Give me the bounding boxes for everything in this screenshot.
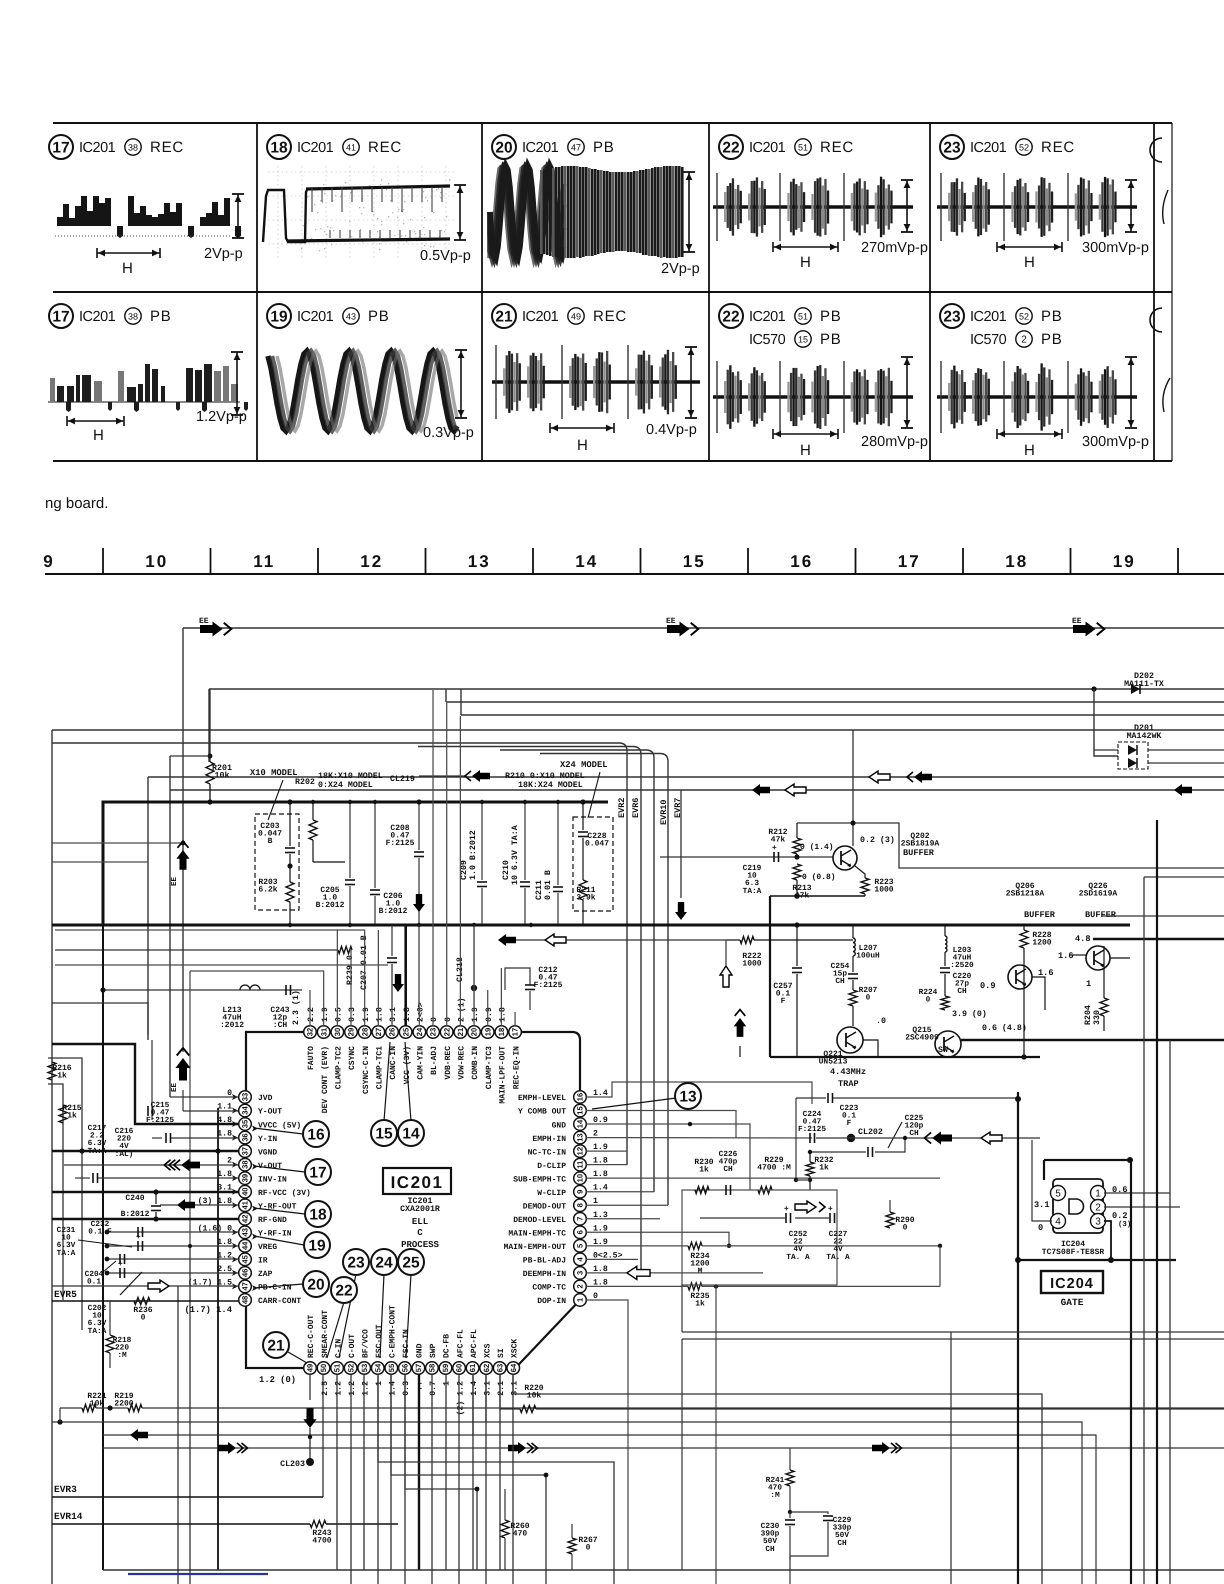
- svg-text:NC-TC-IN: NC-TC-IN: [528, 1148, 567, 1157]
- svg-text:300mVp-p: 300mVp-p: [1082, 240, 1149, 256]
- svg-text:2: 2: [1021, 334, 1027, 345]
- waveform 21 REC (chroma bursts 0.4Vp-p): [492, 380, 700, 383]
- svg-text:TC7S08F-TE8SR: TC7S08F-TE8SR: [1042, 1248, 1105, 1257]
- svg-text:14: 14: [402, 1126, 420, 1143]
- wire VCC pin25 thick drop: [404, 925, 407, 1026]
- callout circled 21: [263, 1332, 289, 1358]
- svg-text:100uH: 100uH: [856, 952, 880, 961]
- IC201 pin 25 VCC (3V): [399, 1026, 412, 1039]
- black left arrow y1138: [932, 1131, 952, 1144]
- svg-text:1.1: 1.1: [217, 1103, 232, 1112]
- wire rows right bottom cluster: [682, 1331, 1224, 1333]
- svg-text:C209: C209: [460, 860, 469, 880]
- svg-text:36: 36: [241, 1133, 250, 1141]
- svg-text:41: 41: [241, 1200, 250, 1209]
- svg-text:PB: PB: [820, 331, 842, 348]
- svg-text:REC: REC: [368, 139, 402, 156]
- svg-text:X24 MODEL: X24 MODEL: [560, 760, 608, 770]
- svg-text:2.5: 2.5: [321, 1381, 330, 1396]
- svg-text:30: 30: [333, 1028, 342, 1036]
- svg-text:VDB-REC: VDB-REC: [444, 1046, 453, 1080]
- node CL219: [416, 799, 421, 804]
- svg-text:5: 5: [1055, 1188, 1061, 1199]
- svg-text:ZAP: ZAP: [258, 1270, 273, 1279]
- waveform box label 19 IC201 pin43 PB: [267, 304, 291, 328]
- trap subcircuit box: [769, 896, 771, 1057]
- wire left rail x105 vertical: [102, 925, 104, 1570]
- svg-text:1k: 1k: [67, 1112, 77, 1121]
- svg-text:2: 2: [1095, 1202, 1101, 1213]
- inductor L213 47uH line: [103, 989, 302, 991]
- H measure box17REC: [96, 248, 98, 258]
- wire pin24 CL219 column: [418, 925, 420, 1010]
- svg-text:38: 38: [128, 142, 138, 152]
- hollow up arrow trap: [720, 966, 732, 987]
- svg-text:10k: 10k: [527, 1392, 542, 1401]
- svg-text:63: 63: [495, 1364, 504, 1372]
- svg-text:MA142WK: MA142WK: [1127, 732, 1162, 741]
- resistor R228 1200: [1023, 925, 1025, 930]
- svg-text:AFC-FL: AFC-FL: [456, 1329, 465, 1358]
- svg-text:18: 18: [1005, 552, 1028, 571]
- svg-text:17: 17: [52, 309, 69, 326]
- svg-text:GATE: GATE: [1061, 1297, 1084, 1308]
- H measure box23R: [996, 242, 998, 252]
- svg-text:EE: EE: [171, 1082, 179, 1092]
- svg-text:EVR5: EVR5: [54, 1289, 77, 1300]
- wire pin42 RF-GND thick: [52, 1218, 238, 1221]
- svg-text:1.8: 1.8: [376, 1007, 385, 1022]
- svg-text:VGND: VGND: [258, 1148, 277, 1157]
- svg-text:0.9: 0.9: [980, 981, 995, 991]
- IC204 pin4 wire: [1032, 1140, 1052, 1221]
- svg-text:34: 34: [241, 1106, 250, 1115]
- svg-text:(1.7) 1.4: (1.7) 1.4: [184, 1305, 232, 1315]
- thick rail through IC204 area: [1017, 1092, 1019, 1584]
- waveform 18 REC (square wave) with graticule: [268, 171, 455, 173]
- IC201 pin 13 EMPH-IN: [574, 1131, 587, 1144]
- measure arrow 280mVp-p box22P: [901, 356, 913, 358]
- svg-text:2.3 (1): 2.3 (1): [291, 990, 301, 1025]
- svg-text:R210 0:X10 MODEL: R210 0:X10 MODEL: [505, 772, 585, 781]
- svg-text:1.8: 1.8: [403, 1007, 412, 1022]
- svg-text:IC201: IC201: [522, 140, 559, 156]
- IC201 pin 61 APC-FL: [466, 1362, 479, 1375]
- nodes on power bus: [311, 800, 315, 804]
- svg-text:C: C: [417, 1228, 423, 1238]
- IC201 pin 37 VGND: [239, 1145, 252, 1158]
- svg-text:22: 22: [722, 309, 739, 326]
- svg-text:17: 17: [309, 1165, 326, 1182]
- svg-text:.0: .0: [876, 1017, 886, 1026]
- resistor R243 4700 inline EVR14: [310, 1521, 326, 1528]
- svg-text:280mVp-p: 280mVp-p: [861, 434, 928, 450]
- svg-text:0: 0: [141, 1314, 146, 1323]
- svg-text:18: 18: [497, 1028, 506, 1036]
- svg-text:50: 50: [319, 1364, 328, 1372]
- IC201 pin 64 XSCK: [507, 1362, 520, 1375]
- svg-text:CANC-IN: CANC-IN: [389, 1046, 398, 1080]
- wire pin47 PB-C-IN: [52, 1285, 238, 1287]
- black down arrow at C206: [413, 894, 425, 912]
- svg-text:6.2k: 6.2k: [258, 886, 277, 895]
- waveform box label 23 IC201 pin52 PB: [940, 304, 964, 328]
- callout circled 20: [303, 1271, 329, 1297]
- svg-text:BUFFER: BUFFER: [1085, 910, 1117, 920]
- IC204 pin 3: [1091, 1214, 1106, 1229]
- svg-text:CSYNC-C-IN: CSYNC-C-IN: [362, 1046, 371, 1094]
- wire pin3 with hollow arrow: [586, 1272, 763, 1274]
- svg-text:21: 21: [267, 1338, 285, 1355]
- measure arrow 2Vp-p box20: [683, 171, 695, 173]
- thick 5V feed elbow: [52, 1044, 238, 1124]
- svg-text:IC201: IC201: [79, 140, 116, 156]
- H measure box17PB: [66, 416, 68, 426]
- svg-text:18K:X24 MODEL: 18K:X24 MODEL: [518, 781, 583, 790]
- svg-text:28: 28: [360, 1028, 369, 1036]
- svg-text:3.9 (0): 3.9 (0): [952, 1009, 987, 1019]
- svg-text::M: :M: [770, 1491, 780, 1500]
- svg-text:13: 13: [468, 552, 491, 571]
- svg-text:57: 57: [414, 1364, 423, 1372]
- svg-text:IR: IR: [258, 1257, 268, 1266]
- black left arrow near CL219: [419, 775, 465, 777]
- wire row y1422: [52, 1422, 1082, 1584]
- svg-text:B:2012: B:2012: [379, 907, 408, 916]
- waveform box label 23 IC201 pin52 REC: [940, 135, 964, 159]
- svg-text:1k: 1k: [699, 1166, 709, 1175]
- wire pin5 with R234 1200 inline: [586, 1245, 688, 1247]
- measure arrow 0.5Vp-p box18: [454, 184, 466, 186]
- svg-text:F:2125: F:2125: [534, 981, 563, 990]
- wire pin44 VREG: [107, 1245, 238, 1247]
- svg-text:0.047: 0.047: [585, 840, 609, 849]
- wire long rows upper: [446, 701, 1224, 703]
- svg-text:16: 16: [576, 1093, 585, 1101]
- svg-text:33: 33: [241, 1093, 250, 1101]
- svg-text:PB: PB: [820, 308, 842, 325]
- waveform 17 REC (video signal): [57, 196, 111, 226]
- svg-text:64: 64: [509, 1363, 518, 1372]
- svg-text:4700: 4700: [312, 1537, 331, 1546]
- svg-text:CL203: CL203: [280, 1460, 305, 1469]
- wire pin43 Y-RF-IN: [107, 1231, 238, 1233]
- svg-text:16: 16: [790, 552, 813, 571]
- resistor R220 10k on pin63 line: [500, 1374, 520, 1409]
- IC201 pin 60 AFC-FL: [453, 1362, 466, 1375]
- svg-text:18K:X10 MODEL: 18K:X10 MODEL: [318, 772, 383, 781]
- svg-text:CARR-CONT: CARR-CONT: [258, 1297, 301, 1306]
- svg-text:10 6.3V TA:A: 10 6.3V TA:A: [511, 825, 520, 885]
- wire pin62 elbow right: [485, 1374, 487, 1422]
- grid column scale line: [45, 573, 1224, 575]
- svg-text:EVR10: EVR10: [659, 799, 669, 825]
- IC204 gate cell: [1043, 1160, 1045, 1180]
- svg-text:2.2: 2.2: [307, 1007, 316, 1022]
- svg-text:C-OUT: C-OUT: [348, 1334, 357, 1358]
- svg-text:EMPH-LEVEL: EMPH-LEVEL: [518, 1094, 566, 1103]
- svg-text:17: 17: [511, 1028, 520, 1036]
- wire thick SW out: [961, 1039, 1224, 1041]
- wires right cluster joins: [1023, 965, 1025, 1057]
- callout circled 17: [305, 1159, 331, 1185]
- svg-text:1.6: 1.6: [1058, 951, 1073, 961]
- svg-text:25: 25: [401, 1027, 410, 1036]
- svg-text:58: 58: [428, 1364, 437, 1372]
- waveform box label 17 IC201 pin38 REC: [49, 135, 73, 159]
- wire C225 branch: [810, 1151, 866, 1153]
- IC201 pin 21 VDW-REC: [454, 1026, 467, 1039]
- wire Q202 base row: [660, 856, 833, 858]
- svg-text:0.3: 0.3: [348, 1007, 357, 1022]
- wire pin37 VGND thick: [52, 1150, 238, 1153]
- svg-text:14: 14: [576, 1119, 585, 1128]
- svg-text:MAIN-EMPH-OUT: MAIN-EMPH-OUT: [504, 1243, 567, 1252]
- svg-text:1.2: 1.2: [348, 1381, 357, 1396]
- IC201 pin 28 CSYNC-C-IN: [358, 1026, 371, 1039]
- callout circled 24: [371, 1249, 397, 1275]
- svg-text:FAUTO: FAUTO: [307, 1046, 316, 1070]
- svg-text:0.4Vp-p: 0.4Vp-p: [646, 422, 697, 438]
- svg-text:25: 25: [402, 1255, 420, 1272]
- svg-text:4.43MHz: 4.43MHz: [830, 1067, 866, 1077]
- svg-text:0.6 (4.8): 0.6 (4.8): [982, 1023, 1027, 1033]
- IC201 pin 9 W-CLIP: [574, 1185, 587, 1198]
- svg-text:XSCK: XSCK: [510, 1339, 519, 1358]
- svg-text:R204: R204: [1084, 1005, 1093, 1025]
- svg-text:0.5: 0.5: [335, 1007, 344, 1022]
- svg-text:SW: SW: [938, 1046, 948, 1055]
- IC201 pin 5 MAIN-EMPH-OUT: [574, 1240, 587, 1253]
- svg-text:1000: 1000: [874, 886, 893, 895]
- svg-text:1.4: 1.4: [470, 1381, 479, 1396]
- callout circled 16: [303, 1121, 329, 1147]
- IC201 pin 16 EMPH-LEVEL: [574, 1091, 587, 1104]
- IC201 pin 36 Y-IN: [239, 1131, 252, 1144]
- resistor in box: [695, 1187, 709, 1194]
- svg-text:FSC-OUT: FSC-OUT: [375, 1324, 384, 1358]
- svg-text:47: 47: [571, 142, 581, 152]
- IC201 pin 42 RF-GND: [239, 1212, 252, 1225]
- IC201 pin 39 INV-IN: [239, 1172, 252, 1185]
- svg-text:H: H: [800, 442, 811, 459]
- svg-text:PB: PB: [368, 308, 390, 325]
- svg-text:41: 41: [346, 142, 356, 152]
- svg-text:H: H: [122, 260, 133, 277]
- svg-text:+: +: [828, 1204, 833, 1213]
- IC201 pin 44 VREG: [239, 1240, 252, 1253]
- wire pin36 Y-IN cap: [152, 1137, 162, 1139]
- wire pin45 IR: [107, 1258, 238, 1260]
- svg-text:19: 19: [483, 1028, 492, 1036]
- IC201 boxed name label: [383, 1168, 451, 1194]
- svg-text:270mVp-p: 270mVp-p: [861, 240, 928, 256]
- svg-text:(3): (3): [1118, 1220, 1131, 1229]
- wire CL202 row: [816, 1137, 1040, 1139]
- IC201 pin 32 FAUTO: [304, 1026, 317, 1039]
- IC201 pin 38 V-OUT: [239, 1158, 252, 1171]
- wire steps lower right: [378, 1374, 614, 1584]
- svg-text:2SB1218A: 2SB1218A: [1006, 890, 1045, 899]
- svg-text:22: 22: [335, 1283, 352, 1300]
- svg-text:9: 9: [43, 552, 54, 571]
- IC201 pin 17 REC-EQ-IN: [509, 1026, 522, 1039]
- svg-text:3: 3: [1095, 1216, 1101, 1227]
- svg-text:TA:A: TA:A: [57, 1249, 76, 1258]
- feedback box outline: [682, 1190, 837, 1285]
- EE up arrow left mid: [182, 1040, 184, 1052]
- svg-text:RF-GND: RF-GND: [258, 1216, 287, 1225]
- svg-text:DEMOD-OUT: DEMOD-OUT: [523, 1202, 566, 1211]
- svg-text:18: 18: [309, 1207, 327, 1224]
- svg-text::M: :M: [117, 1351, 127, 1360]
- IC201 pin 51 C-IN: [331, 1362, 344, 1375]
- black left arrow y790 a: [752, 784, 770, 796]
- svg-text:4: 4: [1055, 1216, 1061, 1227]
- svg-text:H: H: [93, 427, 104, 444]
- svg-text:27: 27: [374, 1028, 383, 1036]
- svg-text:300mVp-p: 300mVp-p: [1082, 434, 1149, 450]
- wire pin33 JVD: [170, 1096, 238, 1098]
- hollow left arrow y1138: [981, 1132, 1002, 1144]
- svg-text:0: 0: [926, 996, 931, 1005]
- IC201 pin 54 FSC-OUT: [371, 1362, 384, 1375]
- measure arrow 270mVp-p box22R: [901, 179, 913, 181]
- transistor Q202 2SB1819A: [833, 846, 857, 870]
- svg-text:EE: EE: [666, 617, 676, 626]
- svg-text:CLAMP-TC3: CLAMP-TC3: [485, 1046, 494, 1089]
- node R202 top: [287, 799, 292, 804]
- svg-text:1k: 1k: [57, 1072, 67, 1081]
- svg-text:PB: PB: [1041, 308, 1063, 325]
- IC201 outline: [246, 1032, 304, 1368]
- svg-text:COMB-IN: COMB-IN: [471, 1046, 480, 1080]
- svg-text:2SD1619A: 2SD1619A: [1079, 890, 1118, 899]
- svg-text:UN5213: UN5213: [819, 1058, 848, 1067]
- IC201 pin 53 BF/VCO: [358, 1362, 371, 1375]
- svg-text:1.9: 1.9: [321, 1007, 330, 1022]
- wire row y1448 with right arrows: [103, 1447, 1224, 1449]
- svg-text:14: 14: [575, 552, 598, 571]
- svg-text:10k: 10k: [215, 771, 230, 781]
- svg-text:3.1: 3.1: [1034, 1200, 1049, 1210]
- svg-text:9: 9: [576, 1190, 585, 1194]
- svg-text:PB-BL-ADJ: PB-BL-ADJ: [523, 1257, 566, 1266]
- svg-text:CL202: CL202: [858, 1128, 883, 1137]
- svg-text:0.3: 0.3: [402, 1381, 411, 1396]
- svg-text:19: 19: [270, 309, 288, 326]
- svg-text:BF/VCO: BF/VCO: [361, 1329, 370, 1358]
- svg-text:MAIN-LPF-OUT: MAIN-LPF-OUT: [499, 1046, 508, 1104]
- svg-text:IC201: IC201: [970, 140, 1007, 156]
- svg-text:1.8: 1.8: [217, 1130, 232, 1139]
- node junction at D202 branch: [1091, 686, 1096, 691]
- IC201 pin 18 MAIN-LPF-OUT: [495, 1026, 508, 1039]
- node CL203: [306, 1458, 314, 1466]
- svg-text:D-CLIP: D-CLIP: [537, 1162, 566, 1171]
- svg-text::2520: :2520: [950, 961, 974, 970]
- svg-text:19: 19: [1113, 552, 1136, 571]
- wire branch to D201: [1094, 689, 1118, 756]
- IC201 pin 10 SUB-EMPH-TC: [574, 1172, 587, 1185]
- right vertical rails: [1130, 1160, 1132, 1584]
- wire bottom rail y1570: [103, 1569, 1224, 1571]
- svg-text:0 (1.4): 0 (1.4): [800, 843, 834, 852]
- measure arrow 300mVp-p box23R: [1125, 179, 1137, 181]
- svg-text:17: 17: [52, 140, 69, 157]
- callout circled 22: [331, 1277, 357, 1303]
- svg-text:DEEMPH-IN: DEEMPH-IN: [523, 1270, 566, 1279]
- svg-text:2Vp-p: 2Vp-p: [204, 246, 243, 262]
- IC201 pin 43 Y-RF-IN: [239, 1226, 252, 1239]
- wires bottom pins down: [336, 1374, 338, 1570]
- svg-text:3.1: 3.1: [389, 1007, 398, 1022]
- svg-text:54: 54: [373, 1363, 382, 1372]
- dashed select box C203 R203: [255, 814, 299, 910]
- svg-text:CLAMP-TC2: CLAMP-TC2: [335, 1046, 344, 1089]
- IC201 pin 59 DC-FB: [439, 1362, 452, 1375]
- svg-text:20: 20: [470, 1028, 479, 1036]
- IC201 pin 12 NC-TC-IN: [574, 1145, 587, 1158]
- svg-text:MA111-TX: MA111-TX: [1124, 680, 1164, 689]
- svg-text:15: 15: [576, 1106, 585, 1115]
- svg-text:0.1: 0.1: [87, 1278, 101, 1287]
- svg-text:0.01 B: 0.01 B: [544, 870, 553, 900]
- svg-text:EMPH-IN: EMPH-IN: [532, 1135, 566, 1144]
- measure arrow 1.2Vp-p box17PB: [231, 351, 243, 353]
- wire EE bus top: [183, 627, 1224, 629]
- svg-text:46: 46: [241, 1269, 250, 1277]
- IC204 pin 5: [1051, 1186, 1066, 1201]
- IC204 boxed label: [1041, 1271, 1103, 1293]
- svg-text:1k: 1k: [695, 1300, 705, 1309]
- callout circled 25: [398, 1249, 424, 1275]
- svg-text:23: 23: [347, 1255, 365, 1272]
- svg-text:APC-FL: APC-FL: [470, 1329, 479, 1358]
- IC201 pin 19 CLAMP-TC3: [481, 1026, 494, 1039]
- wire Q202 bottom rail: [770, 895, 865, 897]
- wire vertical to Q202: [852, 730, 854, 846]
- IC201 pin 29 CSYNC: [345, 1026, 358, 1039]
- IC201 pin 62 XCS: [480, 1362, 493, 1375]
- svg-text:IC201: IC201: [749, 140, 786, 156]
- svg-text:15: 15: [798, 334, 808, 344]
- svg-text:1: 1: [375, 1381, 384, 1386]
- svg-text:0.3Vp-p: 0.3Vp-p: [423, 425, 474, 441]
- IC201 pin 55 C-EMPH-CONT: [385, 1362, 398, 1375]
- svg-text:3: 3: [576, 1271, 585, 1275]
- IC201 pin 15 Y COMB OUT: [574, 1104, 587, 1117]
- svg-text:F: F: [847, 1119, 852, 1128]
- svg-text:23: 23: [943, 309, 961, 326]
- svg-text:EE: EE: [199, 617, 209, 626]
- svg-text:1.2 (0): 1.2 (0): [259, 1375, 296, 1385]
- svg-text:56: 56: [400, 1364, 409, 1372]
- IC201 pin 20 COMB-IN: [468, 1026, 481, 1039]
- svg-text::2012: :2012: [220, 1021, 244, 1030]
- svg-text:CH: CH: [765, 1545, 775, 1554]
- wire pin4 stub: [586, 1258, 638, 1260]
- svg-text:23: 23: [429, 1028, 438, 1036]
- svg-text:47: 47: [241, 1282, 250, 1290]
- svg-text:DEV CONT (EVR): DEV CONT (EVR): [321, 1046, 330, 1113]
- IC201 pin 52 C-OUT: [344, 1362, 357, 1375]
- power bus thick: [103, 802, 608, 925]
- svg-text:RF-VCC (3V): RF-VCC (3V): [258, 1189, 311, 1198]
- svg-text:GND: GND: [552, 1121, 567, 1130]
- capacitor C212 0.47 F:2125: [505, 968, 530, 990]
- svg-text:CH: CH: [957, 987, 967, 996]
